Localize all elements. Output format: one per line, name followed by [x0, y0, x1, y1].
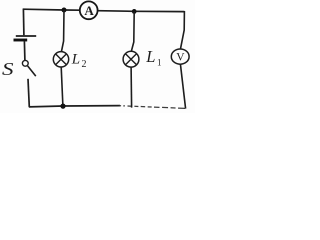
switch S blade [28, 66, 36, 76]
wire battery to switch [23, 41, 26, 60]
wire right vertical top (corner to voltmeter) [180, 11, 184, 49]
wire top-left horizontal (corner to junction A-branch) [23, 9, 80, 10]
wire voltmeter to bottom-right corner [180, 64, 185, 109]
battery cell: short thick negative plate [14, 39, 28, 42]
wire switch to bottom-left corner [28, 79, 29, 107]
svg-text:A: A [84, 3, 94, 18]
lamp L2 circle [53, 52, 68, 67]
lamp L1 cross [126, 54, 137, 65]
svg-text:L: L [71, 52, 80, 68]
wire left vertical (corner to battery) [22, 9, 25, 36]
wire top-right (ammeter to right corner) [98, 10, 185, 13]
node junction dot top (L2 branch) [62, 8, 67, 13]
wire junction to lamp L2 [61, 10, 64, 52]
lamp L2 cross [56, 54, 67, 65]
ammeter A circle [80, 1, 98, 19]
node junction dot top (L1 branch) [132, 9, 137, 14]
svg-text:V: V [176, 52, 185, 64]
svg-text:2: 2 [82, 59, 87, 70]
svg-text:L: L [145, 47, 155, 66]
wire junction to lamp L1 [131, 11, 134, 51]
svg-text:1: 1 [157, 58, 162, 68]
wire lamp L1 to bottom wire [130, 67, 133, 108]
wire lamp L2 to bottom junction [61, 67, 63, 106]
node junction dot bottom [60, 104, 65, 109]
wire bottom dashed segment [120, 106, 187, 109]
switch S pivot circle [22, 60, 28, 66]
wire bottom solid segment [29, 106, 120, 107]
svg-text:S: S [2, 59, 14, 79]
voltmeter V circle [171, 49, 189, 64]
lamp L1 circle [123, 51, 139, 67]
battery cell: long positive plate [16, 35, 36, 37]
